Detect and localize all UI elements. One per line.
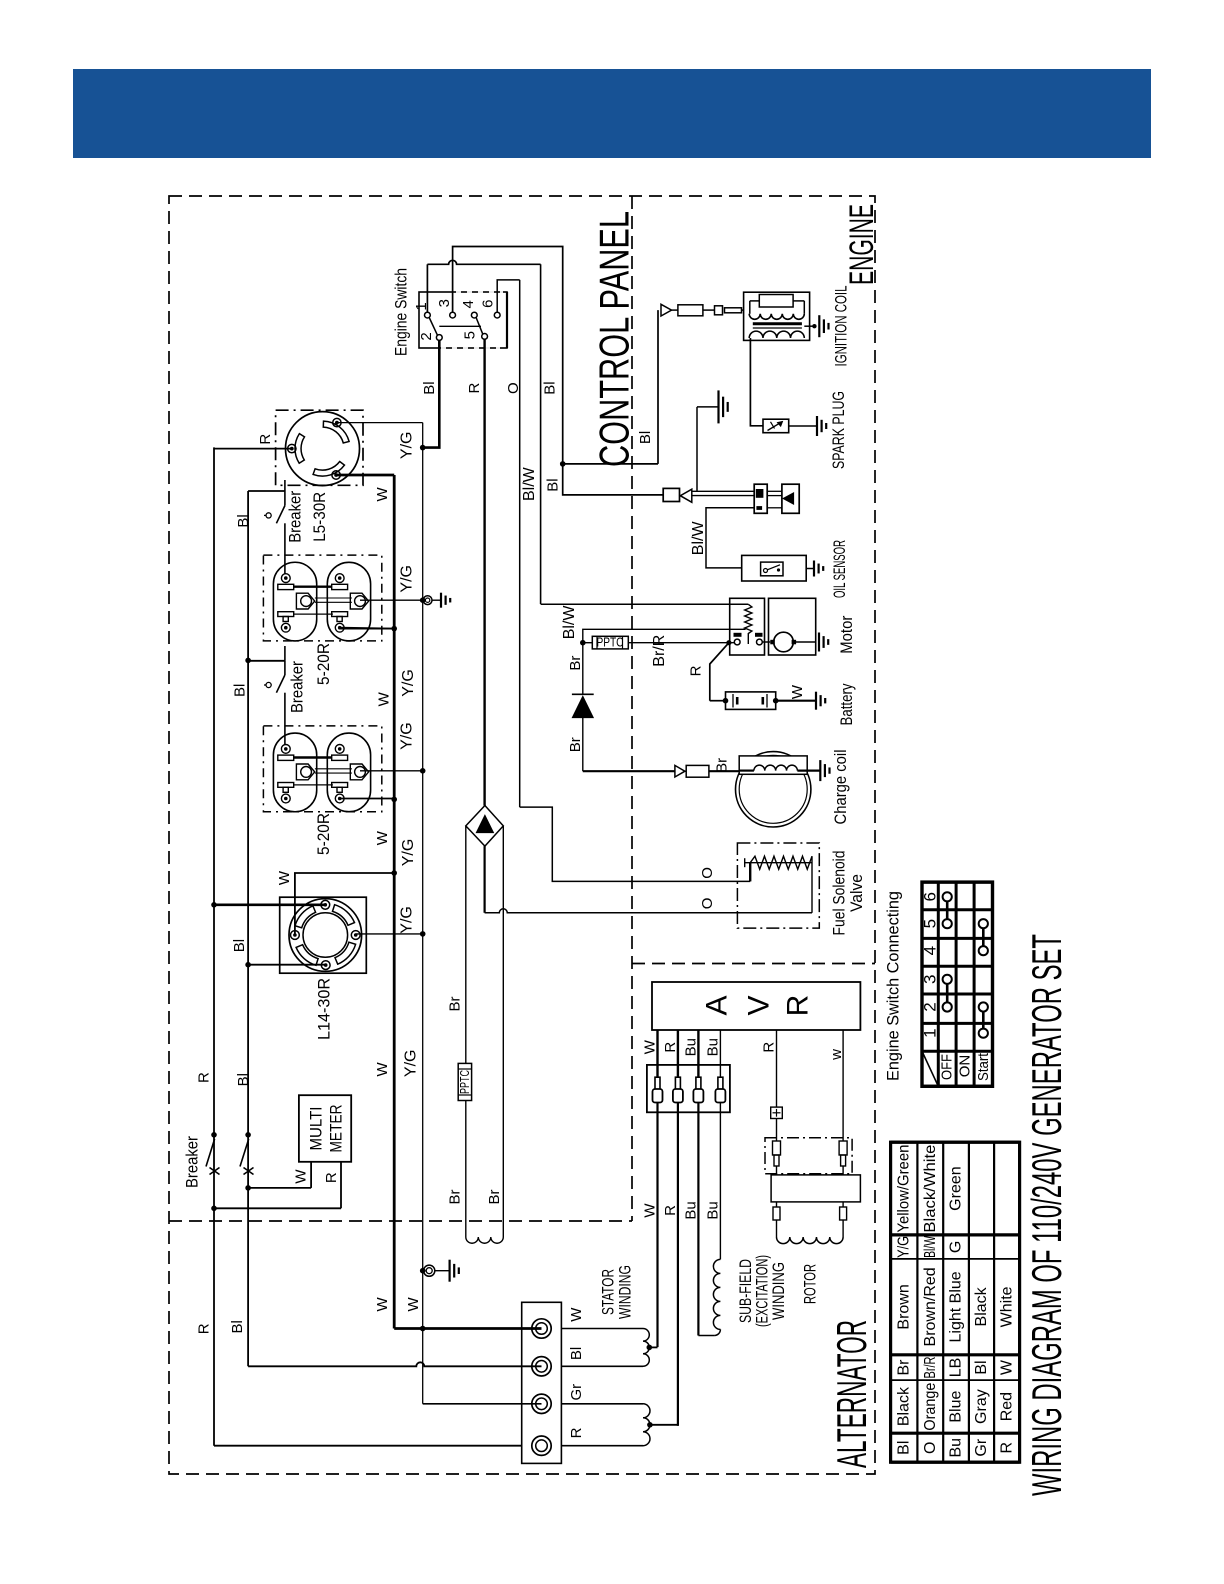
svg-text:Red: Red bbox=[998, 1392, 1015, 1421]
svg-text:Bl/W: Bl/W bbox=[690, 521, 707, 556]
svg-text:L14-30R: L14-30R bbox=[315, 978, 334, 1040]
svg-text:V: V bbox=[743, 995, 776, 1015]
svg-text:6: 6 bbox=[480, 300, 497, 308]
svg-text:Y/G: Y/G bbox=[398, 906, 415, 934]
svg-text:Black: Black bbox=[896, 1386, 913, 1426]
svg-text:CONTROL PANEL: CONTROL PANEL bbox=[591, 211, 638, 467]
svg-text:5-20R: 5-20R bbox=[314, 643, 333, 685]
svg-text:4: 4 bbox=[921, 946, 940, 955]
svg-text:PPTC: PPTC bbox=[458, 1070, 472, 1094]
svg-text:IGNITION COIL: IGNITION COIL bbox=[832, 286, 851, 367]
svg-text:R: R bbox=[323, 1172, 340, 1183]
svg-text:Brown: Brown bbox=[896, 1284, 913, 1329]
svg-text:Bl: Bl bbox=[896, 1441, 913, 1455]
svg-text:Y/G: Y/G bbox=[398, 722, 415, 750]
svg-text:Bl: Bl bbox=[232, 684, 249, 697]
svg-text:Valve: Valve bbox=[847, 874, 866, 912]
svg-text:W: W bbox=[276, 870, 293, 885]
svg-text:W: W bbox=[642, 1039, 659, 1054]
svg-text:1: 1 bbox=[921, 1028, 940, 1037]
svg-text:White: White bbox=[998, 1286, 1015, 1327]
svg-text:Bl: Bl bbox=[637, 431, 654, 444]
svg-text:Y/G: Y/G bbox=[403, 1050, 420, 1078]
svg-text:5: 5 bbox=[921, 919, 940, 928]
svg-text:Gr: Gr bbox=[973, 1438, 990, 1456]
svg-text:MULTI: MULTI bbox=[307, 1107, 326, 1151]
svg-text:R: R bbox=[257, 434, 274, 445]
svg-text:SPARK PLUG: SPARK PLUG bbox=[829, 391, 848, 469]
svg-text:Black/White: Black/White bbox=[922, 1144, 939, 1232]
svg-text:Gray: Gray bbox=[973, 1389, 990, 1424]
svg-text:W: W bbox=[374, 486, 391, 501]
svg-text:5: 5 bbox=[461, 331, 478, 339]
svg-text:Br: Br bbox=[486, 1189, 503, 1204]
svg-text:Bl: Bl bbox=[973, 1360, 990, 1374]
svg-text:Bu: Bu bbox=[948, 1438, 965, 1458]
svg-text:W: W bbox=[405, 1296, 422, 1311]
svg-text:WINDING: WINDING bbox=[769, 1262, 788, 1320]
svg-text:W: W bbox=[374, 1296, 391, 1311]
svg-text:Y/G: Y/G bbox=[398, 432, 415, 460]
svg-text:Breaker: Breaker bbox=[287, 661, 306, 713]
svg-text:R: R bbox=[761, 1042, 778, 1053]
svg-text:Orange: Orange bbox=[922, 1383, 939, 1431]
svg-text:Bl/W: Bl/W bbox=[521, 466, 538, 501]
svg-text:O: O bbox=[922, 1441, 939, 1453]
svg-text:W: W bbox=[789, 684, 806, 699]
svg-text:Br/R: Br/R bbox=[922, 1357, 939, 1379]
svg-text:Bl: Bl bbox=[235, 1073, 252, 1086]
svg-text:Battery: Battery bbox=[837, 683, 856, 725]
svg-text:Breaker: Breaker bbox=[285, 491, 304, 543]
svg-text:O: O bbox=[505, 382, 522, 394]
svg-text:Br: Br bbox=[447, 1189, 464, 1204]
svg-text:O: O bbox=[699, 867, 716, 879]
svg-text:Bu: Bu bbox=[704, 1201, 721, 1219]
svg-text:Br/R: Br/R bbox=[651, 635, 668, 667]
svg-text:R: R bbox=[687, 665, 704, 676]
svg-text:R: R bbox=[196, 1072, 213, 1083]
svg-text:ROTOR: ROTOR bbox=[801, 1264, 820, 1304]
svg-text:Blue: Blue bbox=[948, 1390, 965, 1422]
svg-text:W: W bbox=[374, 830, 391, 845]
svg-text:G: G bbox=[948, 1241, 965, 1253]
svg-text:5-20R: 5-20R bbox=[314, 813, 333, 855]
svg-text:ON: ON bbox=[957, 1055, 974, 1078]
svg-text:Br: Br bbox=[567, 737, 584, 752]
svg-text:Y/G: Y/G bbox=[896, 1236, 913, 1258]
svg-text:W: W bbox=[642, 1203, 659, 1218]
svg-text:LB: LB bbox=[948, 1358, 965, 1378]
svg-text:A: A bbox=[701, 995, 734, 1015]
svg-text:Bl/W: Bl/W bbox=[561, 605, 578, 640]
svg-text:R: R bbox=[466, 383, 483, 394]
svg-text:L5-30R: L5-30R bbox=[310, 492, 329, 542]
svg-text:METER: METER bbox=[327, 1105, 346, 1153]
svg-text:Bu: Bu bbox=[682, 1201, 699, 1219]
svg-text:Br: Br bbox=[567, 656, 584, 671]
svg-text:R: R bbox=[662, 1042, 679, 1053]
svg-text:6: 6 bbox=[921, 892, 940, 901]
svg-text:Bl: Bl bbox=[231, 939, 248, 952]
svg-text:Gr: Gr bbox=[568, 1384, 585, 1401]
svg-text:WIRING DIAGRAM OF 110/240V GEN: WIRING DIAGRAM OF 110/240V GENERATOR SET bbox=[1023, 934, 1070, 1496]
svg-text:W: W bbox=[375, 691, 392, 706]
svg-text:Bl: Bl bbox=[229, 1320, 246, 1333]
svg-text:WINDING: WINDING bbox=[616, 1265, 635, 1319]
svg-text:W: W bbox=[998, 1359, 1015, 1375]
svg-text:Charge coil: Charge coil bbox=[831, 750, 850, 825]
svg-text:R: R bbox=[662, 1205, 679, 1216]
svg-text:Bl/W: Bl/W bbox=[922, 1235, 939, 1258]
svg-text:OIL SENSOR: OIL SENSOR bbox=[830, 540, 849, 598]
svg-text:Bl: Bl bbox=[568, 1347, 585, 1360]
svg-text:Light Blue: Light Blue bbox=[948, 1271, 965, 1342]
svg-text:Y/G: Y/G bbox=[400, 839, 417, 867]
svg-text:R: R bbox=[998, 1442, 1015, 1454]
svg-text:Green: Green bbox=[948, 1166, 965, 1210]
svg-text:R: R bbox=[782, 995, 815, 1017]
svg-text:R: R bbox=[196, 1323, 213, 1334]
svg-text:Brown/Red: Brown/Red bbox=[922, 1267, 939, 1346]
svg-text:Engine Switch: Engine Switch bbox=[392, 268, 411, 356]
svg-text:Bu: Bu bbox=[682, 1038, 699, 1056]
svg-text:Y/G: Y/G bbox=[398, 565, 415, 593]
svg-text:Fuel Solenoid: Fuel Solenoid bbox=[829, 851, 848, 936]
svg-text:Start: Start bbox=[975, 1052, 992, 1081]
svg-text:ENGINE: ENGINE bbox=[843, 204, 881, 285]
svg-text:Bu: Bu bbox=[704, 1038, 721, 1056]
svg-text:W: W bbox=[374, 1061, 391, 1076]
svg-text:Black: Black bbox=[973, 1286, 990, 1326]
svg-text:3: 3 bbox=[921, 975, 940, 984]
svg-text:2: 2 bbox=[921, 1002, 940, 1011]
svg-text:ALTERNATOR: ALTERNATOR bbox=[828, 1320, 875, 1468]
svg-text:Engine Switch Connecting: Engine Switch Connecting bbox=[884, 891, 903, 1081]
svg-text:Br: Br bbox=[447, 996, 464, 1011]
svg-text:Motor: Motor bbox=[837, 615, 856, 653]
svg-text:R: R bbox=[568, 1427, 585, 1438]
svg-text:Breaker: Breaker bbox=[182, 1136, 201, 1188]
svg-text:4: 4 bbox=[460, 300, 477, 308]
svg-text:Bl: Bl bbox=[544, 478, 561, 491]
svg-text:W: W bbox=[293, 1169, 310, 1184]
svg-text:Bl: Bl bbox=[235, 514, 252, 527]
svg-text:Bl: Bl bbox=[542, 381, 559, 394]
svg-text:w: w bbox=[828, 1049, 845, 1061]
svg-text:Bl: Bl bbox=[421, 381, 438, 394]
svg-text:Yellow/Green: Yellow/Green bbox=[896, 1145, 913, 1233]
svg-text:O: O bbox=[699, 898, 716, 910]
svg-text:Y/G: Y/G bbox=[400, 669, 417, 697]
svg-text:W: W bbox=[568, 1307, 585, 1322]
svg-text:PPTC: PPTC bbox=[597, 636, 624, 650]
svg-text:3: 3 bbox=[436, 299, 453, 307]
svg-text:2: 2 bbox=[418, 332, 435, 340]
svg-text:Br: Br bbox=[896, 1359, 913, 1376]
svg-text:OFF: OFF bbox=[939, 1054, 956, 1080]
